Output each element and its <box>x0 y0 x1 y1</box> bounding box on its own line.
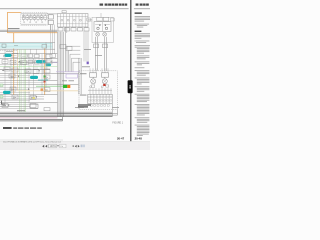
toolbar zoom box <box>49 144 59 148</box>
strainer S1 <box>94 44 108 48</box>
label figure number <box>112 122 123 124</box>
label above pumps <box>95 54 102 57</box>
wire tank drop lines <box>96 37 107 71</box>
highlight chip orange <box>67 85 70 88</box>
valve components grid <box>2 45 72 108</box>
left page header title 20. HYDRAULIC SYSTEM <box>100 4 128 6</box>
tank unit enclosure <box>92 17 113 42</box>
indicator green dot <box>44 76 46 78</box>
wire left mesh short verticals <box>31 54 47 74</box>
valve on cooler band <box>2 44 18 47</box>
indicator orange dot <box>41 89 44 91</box>
wire pump internal bus <box>79 58 113 94</box>
wire bottom trunk lines <box>0 109 118 116</box>
wire staircase routing <box>67 46 80 72</box>
right page list bullets <box>134 24 137 126</box>
label bottom small <box>17 109 25 112</box>
motor M2 teal bit <box>43 60 45 62</box>
valve on band right <box>42 44 47 48</box>
motor M5 cyan <box>3 91 11 94</box>
left page header rule <box>0 8 129 10</box>
page number 20-47 <box>117 137 125 141</box>
motor M3 cyan <box>36 60 43 63</box>
wire mid bus <box>66 27 67 72</box>
right page header rule <box>134 8 150 10</box>
wire tan line horizontal <box>18 90 78 92</box>
indicator yellow dot <box>33 97 35 99</box>
pump under boxes <box>91 85 108 87</box>
label bank note <box>75 106 84 109</box>
hydraulic tank T1 <box>94 22 111 32</box>
wire orange riser A <box>13 33 15 95</box>
label pump mid <box>80 94 87 97</box>
toolbar nav arrows left <box>42 145 47 148</box>
valve component bottom <box>30 104 38 108</box>
wire tan pilot riser <box>17 49 19 91</box>
wire left mesh verticals <box>5 42 46 103</box>
svg-text:20-48: 20-48 <box>135 137 143 141</box>
toolbar page controls <box>73 145 85 148</box>
oil cooler M1 cyan <box>5 54 12 57</box>
solenoid valve unit U1 internals <box>57 11 88 27</box>
motor M6 cyan <box>46 63 52 66</box>
right page header <box>136 4 149 6</box>
wire orange riser B <box>44 44 46 95</box>
valve components mid cluster <box>28 49 45 64</box>
wire row lines mid <box>0 54 79 109</box>
dashed group border <box>0 51 18 52</box>
wire pump feed bus <box>84 31 88 62</box>
valve V2 connector boxes <box>48 15 53 30</box>
valve block V1 internals <box>21 14 57 24</box>
page number 20-48 <box>135 137 143 141</box>
solenoid valve unit U1 enclosure <box>57 14 88 27</box>
fitting elbow bottom left <box>2 101 7 106</box>
label pump notes <box>82 49 91 67</box>
valve component bottom right <box>44 108 50 111</box>
wire coolant line band cyan <box>0 42 55 49</box>
indicator purple dot <box>87 62 89 65</box>
wire lavender pilot line <box>56 71 80 73</box>
pump aux circles <box>90 86 104 88</box>
wire bottom tail lines <box>0 117 63 121</box>
main pump enclosure dashed <box>79 71 117 110</box>
pilot pump P3 circle pair <box>96 32 107 36</box>
main pump P1 <box>90 73 97 84</box>
wire pump inlet verticals <box>90 68 108 73</box>
valve block V1 dashed enclosure <box>21 13 48 25</box>
wire green pilot line horizontal <box>0 67 63 87</box>
wire long return lines upper <box>0 30 57 32</box>
wire bank risers <box>90 88 112 116</box>
svg-text:FIGURE 1: FIGURE 1 <box>112 122 123 124</box>
wire drop lines to cooler band <box>51 25 55 54</box>
side port boxes <box>87 18 114 21</box>
indicator red pump mark <box>103 84 105 86</box>
motor M4 cyan <box>30 76 38 79</box>
check valve marks <box>3 55 47 99</box>
svg-text:20-47: 20-47 <box>117 137 125 141</box>
label corner note <box>112 106 119 109</box>
indicator red dot <box>44 81 46 83</box>
label main pump bold <box>78 104 91 107</box>
label pump top <box>80 72 87 75</box>
wire center bus <box>58 32 64 117</box>
svg-text:20-10 HYDRAULIC SCHEMATIC (STD: 20-10 HYDRAULIC SCHEMATIC (STD and OPT l… <box>3 140 62 143</box>
tank internal dots <box>99 25 106 26</box>
highlight chip green <box>63 85 67 88</box>
wire bottom pink line <box>0 117 58 119</box>
page spine line <box>130 0 132 141</box>
label cluster A <box>8 28 20 29</box>
right page text column <box>135 12 150 136</box>
bank under fittings <box>90 105 109 107</box>
status text line <box>3 140 62 143</box>
label travel motor <box>62 79 74 82</box>
svg-text:Fit: Fit <box>61 145 64 148</box>
valve box mid <box>50 54 56 58</box>
wire green pilot bus vertical <box>20 49 26 112</box>
pilot filter boxes F1 F2 <box>97 13 109 21</box>
wire cyan stub <box>38 79 48 81</box>
svg-text:100%: 100% <box>50 145 57 148</box>
viewer toolbar background <box>0 142 150 150</box>
wire lavender stub <box>52 62 58 64</box>
caption line group <box>3 127 42 129</box>
toolbar fit box <box>60 144 66 148</box>
indicator green left edge <box>0 84 3 87</box>
wire orange supply left vertical <box>7 12 21 32</box>
solenoid unit terminal row <box>58 28 89 31</box>
control valve bank CV1 <box>88 94 112 104</box>
section thumb tab <box>128 80 133 93</box>
wire orange supply horizontal <box>7 32 57 34</box>
accumulator A1 lavender box <box>66 74 77 78</box>
status bar shade <box>0 139 63 142</box>
main pump P2 <box>102 73 109 84</box>
indicator green left edge 2 <box>0 96 3 99</box>
